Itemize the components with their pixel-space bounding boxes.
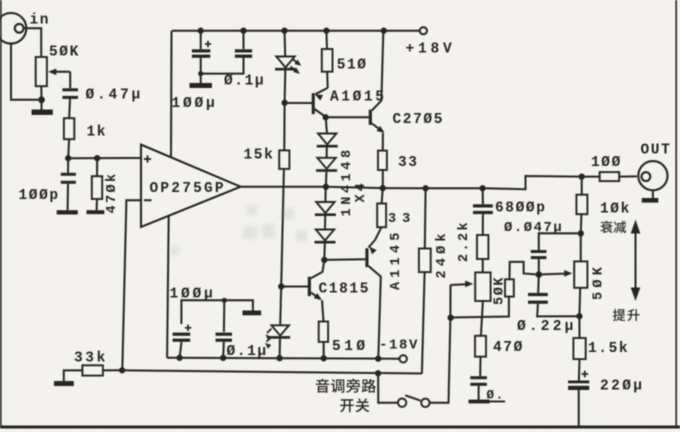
wire R1 to +input node — [67, 139, 70, 158]
wire node J jog to out node — [483, 176, 582, 189]
potentiometer RP3 50K body — [574, 261, 587, 287]
wire LED1 to node C — [284, 70, 287, 103]
label tone-bypass (CJK) — [316, 379, 329, 393]
capacitor C7 6800p plates — [473, 204, 493, 214]
wire D6 to node H — [323, 244, 326, 260]
potentiometer RP2 50K body — [475, 272, 490, 301]
wire node F to 240k node — [383, 187, 426, 189]
node Q (0.047u top) — [578, 230, 584, 236]
diode D4 1N4148 — [317, 158, 335, 169]
wire C11 to bottom edge — [578, 390, 580, 426]
wire node D to LED2 — [280, 287, 281, 326]
wire inverting input feedback — [122, 200, 141, 370]
resistor R9 240k body — [419, 249, 431, 273]
node E (Q1 collector / Q2 base) — [323, 114, 329, 120]
capacitor C7 6800p lead — [482, 188, 484, 204]
wire D4 to node G — [325, 172, 328, 187]
potentiometer RP2 wiper arrow — [451, 281, 474, 288]
wire 33k to ground — [64, 370, 83, 381]
op-amp + symbol — [144, 155, 151, 162]
wire node C to Q1 base — [285, 102, 314, 104]
wire node B to R2 — [96, 158, 98, 176]
node B — [94, 155, 100, 161]
transistor Q4 A1145 body bar — [365, 248, 368, 267]
capacitor C6 0.1u lead — [223, 300, 225, 332]
wire wiper to C1 top — [69, 72, 71, 89]
wire node G to D5 — [324, 187, 326, 202]
connector J1 "in" jack — [0, 13, 26, 44]
wire 33k to node L — [103, 369, 122, 371]
capacitor C4 0.1u plates — [235, 49, 252, 58]
wire C3 to gnd node — [200, 58, 202, 74]
wire R7 to -18V rail — [323, 342, 325, 358]
wire RP2 wiper drop — [449, 285, 451, 318]
ground under 33k — [54, 381, 74, 386]
wire node N to R11 bottom — [451, 297, 509, 318]
capacitor C1 0.47u — [62, 88, 78, 99]
wire node D to Q3 base — [281, 286, 309, 288]
node F (output emitter node) — [380, 185, 386, 191]
capacitor C2 100p — [61, 173, 76, 184]
wire neg decouple top — [181, 300, 253, 324]
wire 1.5k to C11 — [578, 359, 581, 380]
node M (switch tap) — [375, 370, 381, 376]
node A (non-inverting input net) — [65, 155, 71, 161]
switch S1 left contact — [398, 399, 406, 407]
node H (Q3 collector node) — [321, 257, 327, 263]
resistor R15 1.5k body — [573, 338, 585, 359]
ground neg decouple — [243, 311, 262, 316]
label switch (CJK) — [340, 399, 354, 412]
terminal +18V — [420, 27, 427, 34]
transistor Q3 emitter — [311, 293, 324, 303]
wire C4 to gnd node — [201, 58, 244, 74]
wire V+ supply drop — [170, 31, 173, 158]
capacitor C11 220u plates — [568, 381, 589, 391]
node neg-0.1u-top — [222, 298, 227, 303]
wire R2 to ground — [96, 199, 98, 210]
node rail2-LED2 — [276, 355, 282, 361]
transistor Q3 C1815 body bar — [308, 277, 311, 296]
wire node E to D3 — [326, 117, 327, 133]
node I (240k top) — [422, 185, 428, 191]
node rail-100u — [198, 28, 204, 34]
node L (feedback node) — [119, 367, 125, 373]
resistor R1 1k body — [64, 118, 74, 139]
capacitor C3 100u plates — [192, 49, 210, 58]
node G (op-amp drive node) — [323, 184, 329, 190]
transistor Q1 emitter — [314, 88, 328, 101]
LED D2 bottom — [271, 325, 289, 335]
capacitor C5 100u plates — [173, 333, 191, 342]
node rail2-0.1u — [220, 355, 226, 361]
node J (6800p top) — [479, 185, 485, 191]
wire RP3 to node P — [578, 288, 581, 316]
wire node O to RP3 wiper — [539, 270, 572, 277]
wire Q2 emitter to R5 — [382, 133, 384, 151]
diode D3 1N4148 — [318, 134, 336, 145]
wire pot bottom to ground node — [40, 86, 42, 100]
ground under OUT jack — [642, 190, 659, 202]
wire node M to switch — [378, 373, 398, 402]
capacitor C9 0.047u top wire — [539, 233, 581, 250]
wire switch to wiper node — [430, 318, 451, 403]
node rail-LED1 — [281, 28, 287, 34]
node P (0.22u bottom) — [576, 313, 582, 319]
ground under C8 — [469, 400, 506, 404]
wire 240k bottom drop — [422, 272, 425, 373]
wire C8 to ground — [478, 386, 480, 400]
transistor Q4 collector — [369, 266, 381, 358]
resistor R5 33 body — [378, 151, 387, 170]
node rail-0.1u — [240, 28, 246, 34]
capacitor C4 0.1u lead — [243, 31, 245, 50]
wire R3 to node D (long bias drop) — [281, 169, 284, 287]
capacitor C10 0.22u lead — [537, 275, 540, 293]
node N (wiper/switch node) — [448, 315, 454, 321]
wire LED2 to -18V rail — [279, 339, 281, 358]
wire C10 to node P — [537, 304, 579, 317]
wire 100 to OUT jack — [619, 175, 637, 177]
terminal -18V — [400, 355, 407, 362]
LED D1 top — [276, 57, 294, 68]
transistor Q3 collector — [311, 260, 324, 278]
wire jack tip to pot top — [24, 28, 42, 57]
wire node K to 10k — [581, 177, 583, 195]
node D (C1815 base) — [278, 283, 284, 289]
resistor R4 510 lead — [325, 31, 328, 49]
capacitor C2 100p leads — [67, 158, 69, 173]
resistor R3 15k body — [279, 150, 289, 169]
node rail2-510 — [321, 355, 327, 361]
resistor R14 10k body — [576, 195, 587, 215]
wire 470 to C8 — [479, 357, 481, 377]
capacitor C9 0.047u plates — [531, 250, 547, 259]
wire 10k to node Q — [580, 214, 583, 233]
wire node C to R3 15k — [283, 103, 285, 151]
resistor R10 2.2k body — [477, 235, 488, 259]
wire node H to Q4 base — [324, 258, 365, 261]
resistor R4 510 body — [322, 49, 333, 72]
wire R11 top zigzag to node O — [510, 262, 536, 279]
wire node E to Q2 base — [326, 116, 371, 118]
resistor R8 33k body — [82, 365, 103, 375]
transistor Q2 C2705 body bar — [369, 110, 372, 125]
wire C9 to node O — [538, 259, 540, 274]
wire D5-D6 — [324, 216, 326, 230]
wire V- supply drop — [167, 215, 169, 357]
op-amp - symbol — [144, 199, 152, 201]
wire node P to 1.5k — [578, 316, 580, 338]
wire Q3 emitter to R7 — [322, 300, 324, 321]
double arrow boost/attenuate — [631, 220, 641, 302]
node rail2-A1145 — [375, 355, 381, 361]
transistor Q1 collector — [315, 109, 326, 117]
feedback rail wire — [122, 370, 422, 373]
wire 2.2k to pot — [482, 259, 484, 272]
resistor R2 470k body — [92, 176, 102, 199]
node rail2-100u — [176, 355, 182, 361]
faint watermark smudge — [170, 205, 307, 255]
wire node F to R6 — [382, 188, 383, 203]
resistor R12 470 body — [475, 336, 486, 357]
switch S1 right contact — [421, 399, 429, 407]
wire node B to op-amp + — [97, 157, 141, 159]
wire R5 to output node — [382, 170, 384, 188]
wire C6 to rail — [222, 342, 225, 358]
wire C2 to ground — [67, 184, 69, 210]
node O (tone mid node) — [536, 271, 543, 278]
node rail-C2705 — [381, 28, 387, 34]
capacitor C8 plates — [470, 376, 487, 386]
wire 6800p to 2.2k — [482, 214, 484, 235]
wire 240k top — [424, 188, 427, 248]
potentiometer RP1 wiper arrow — [48, 68, 70, 75]
capacitor C3 + mark — [205, 41, 211, 47]
capacitor C11 220u + mark — [581, 371, 588, 378]
wire C5 to rail — [180, 342, 182, 358]
resistor R7 510 body — [319, 322, 328, 342]
node input-ground junction — [38, 96, 45, 103]
transistor Q2 emitter — [372, 124, 386, 136]
wire rail to LED1 — [284, 31, 287, 56]
wire node Q to RP3 — [580, 233, 582, 261]
resistor R13 100 body — [600, 172, 620, 181]
ground under C2 — [57, 210, 78, 214]
wire node I to 6800p node — [426, 187, 483, 189]
transistor Q1 A1015 body bar — [312, 93, 315, 114]
label boost (CJK) — [613, 309, 626, 321]
node top-decouple-gnd — [198, 71, 203, 76]
node C (A1015 base) — [281, 100, 287, 106]
op-amp U1 OP275GP triangle — [141, 145, 241, 227]
capacitor C6 0.1u plates — [216, 333, 233, 342]
node rail-510 — [323, 28, 329, 34]
ground top decoupling — [190, 74, 212, 88]
capacitor C10 0.22u plates — [528, 293, 548, 304]
potentiometer RP1 50K body — [36, 57, 47, 86]
diode D5 1N4148 — [316, 202, 334, 213]
switch S1 lever — [405, 395, 420, 400]
wire op-amp output to node G — [241, 186, 326, 188]
+18V rail wire — [172, 30, 420, 32]
transistor Q4 A1145 emitter arrow — [367, 240, 377, 254]
node K (output/10k node) — [579, 173, 585, 179]
LED D2 arrows — [263, 329, 271, 349]
wire C1 to R1 — [68, 99, 71, 118]
wire RP2 bottom to R12 470 — [481, 301, 483, 336]
resistor R6 33 body — [377, 204, 386, 228]
wire node K to 100 — [582, 176, 600, 178]
transistor Q2 collector — [372, 32, 383, 111]
wire R6 to Q4 emitter — [375, 227, 382, 240]
wire node A to node B — [68, 157, 97, 159]
ground under R2 — [87, 210, 105, 214]
diode D6 1N4148 — [316, 230, 334, 241]
LED D1 arrows — [291, 59, 303, 76]
wire D3-D4 — [326, 148, 328, 158]
capacitor C3 100u lead — [200, 31, 202, 50]
capacitor C5 100u + mark — [185, 325, 191, 331]
wire R4 to Q1 emitter — [326, 72, 329, 88]
label attenuate (CJK) — [600, 221, 612, 233]
-18V rail wire — [167, 358, 400, 359]
ground under input pot — [32, 100, 53, 115]
connector J2 OUT jack — [638, 161, 667, 190]
resistor R11 50K body (series) — [505, 279, 514, 296]
wire node G to node F — [326, 187, 383, 188]
wire jack sleeve to ground node — [11, 44, 38, 100]
